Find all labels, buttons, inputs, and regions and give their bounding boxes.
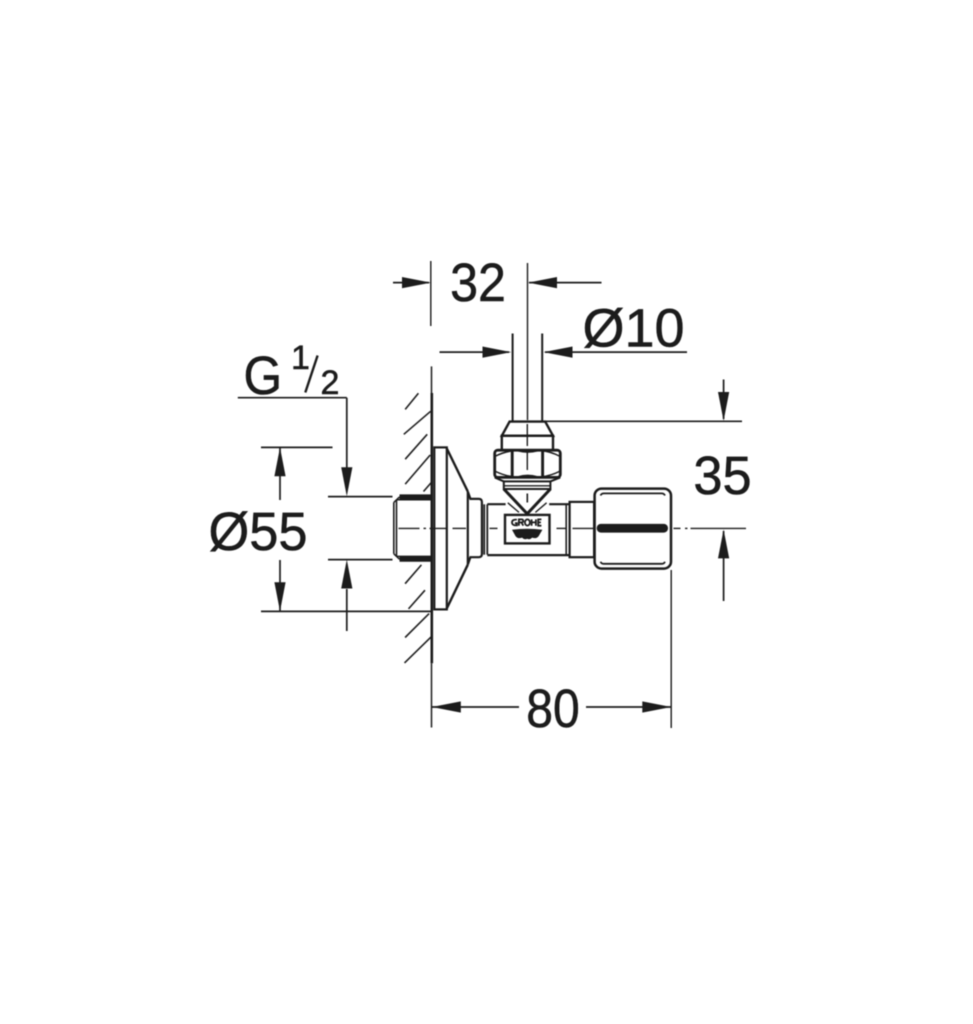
nut lower ring: [504, 481, 551, 489]
pipe Ø10: [512, 334, 514, 422]
body end step: [483, 504, 485, 554]
wall face line: [430, 393, 433, 663]
handle: [595, 489, 671, 569]
nut lower trapezoid: [495, 477, 561, 481]
GROHE logo box: [505, 515, 550, 544]
handle groove: [597, 524, 668, 533]
pipe centerline: [527, 263, 529, 420]
horizontal centerline (dash-dot): [399, 527, 747, 529]
svg-text:1: 1: [291, 339, 310, 377]
dim Ø10: [440, 351, 688, 353]
funnel cone (thick V): [504, 489, 551, 514]
compression nut: top trapezoid: [502, 422, 553, 436]
svg-text:35: 35: [693, 446, 751, 506]
dim 80 (bottom): [432, 706, 519, 708]
svg-text:2: 2: [321, 364, 340, 402]
svg-text:Ø10: Ø10: [582, 299, 684, 359]
dim 32: [393, 282, 602, 284]
compression nut: upper band: [502, 436, 553, 450]
valve body tube: [487, 503, 505, 505]
wall extension line (for 32 dim): [430, 261, 432, 326]
outlet stem: [570, 502, 595, 557]
compression nut: hexagon: [495, 450, 561, 477]
svg-text:80: 80: [526, 679, 579, 739]
dim Ø55 (left): [261, 446, 333, 448]
escutcheon disc: [434, 447, 447, 609]
inlet cylinder: [468, 492, 482, 565]
dim 35 (right): [544, 420, 743, 422]
svg-text:Ø55: Ø55: [208, 502, 307, 562]
male thread G1/2: [394, 493, 432, 564]
funnel chamfer thin lines: [508, 503, 519, 513]
wall hatching: [404, 393, 432, 663]
escutcheon cone: [447, 449, 468, 492]
svg-text:32: 32: [450, 253, 506, 313]
body-stem joint: [565, 504, 567, 556]
